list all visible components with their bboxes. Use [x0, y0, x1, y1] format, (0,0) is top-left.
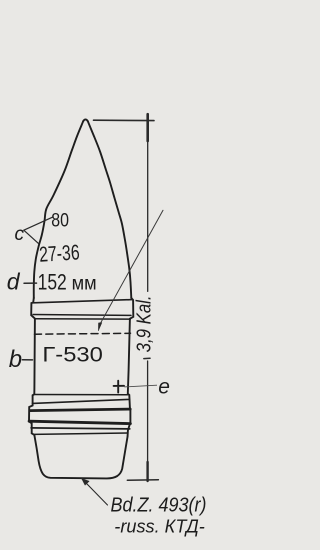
- dimension bottom tick line: [127, 479, 158, 481]
- svg-text:27-36: 27-36: [38, 240, 80, 266]
- diagonal leader arrowhead: [98, 323, 102, 331]
- small dash above lower segment: [144, 357, 150, 359]
- plus mark: [114, 381, 124, 393]
- fork line c lower prong: [24, 230, 39, 244]
- body left edge with bourrelet and driving-band steps: [29, 298, 35, 435]
- base fuze leader line: [82, 479, 108, 505]
- driving band line 5: [31, 428, 130, 429]
- svg-text:80: 80: [51, 210, 69, 232]
- svg-text:-russ. КТД-: -russ. КТД-: [114, 515, 205, 536]
- driving band line 1: [34, 394, 127, 396]
- svg-text:c: c: [15, 224, 25, 245]
- svg-text:d: d: [7, 269, 21, 295]
- projectile ogive left edge: [34, 121, 83, 298]
- bourrelet lower line b: [35, 318, 130, 320]
- fork line c upper prong: [24, 217, 53, 230]
- svg-text:b: b: [9, 346, 22, 373]
- svg-text:e: e: [158, 376, 170, 399]
- svg-text:мм: мм: [72, 272, 97, 294]
- dimension bottom dark stub: [146, 462, 148, 481]
- dimension vertical line lower segment: [147, 361, 149, 481]
- svg-text:152: 152: [38, 269, 67, 294]
- driving band line 2: [33, 399, 130, 403]
- projectile nose apex: [83, 119, 88, 121]
- dimension vertical line upper dark stub: [146, 114, 149, 141]
- body right edge with bourrelet and driving-band steps: [128, 298, 134, 436]
- base fuze leader arrowhead: [81, 478, 89, 485]
- d leader dash: [24, 282, 37, 284]
- long diagonal leader to filler joint: [100, 210, 164, 325]
- driving band line 3 (thick): [30, 409, 130, 411]
- svg-text:Bd.Z. 493(r): Bd.Z. 493(r): [111, 495, 207, 517]
- projectile ogive right edge: [88, 121, 132, 298]
- bourrelet lower line a: [33, 314, 131, 317]
- driving band line 4 (thick): [29, 421, 130, 423]
- svg-text:3,9 Kal.: 3,9 Kal.: [134, 295, 156, 352]
- b leader dash: [22, 359, 32, 361]
- svg-text:Г-530: Г-530: [42, 343, 103, 367]
- dimension vertical line upper segment: [147, 114, 149, 292]
- dashed filler boundary line: [35, 332, 131, 335]
- leader from plus to e: [124, 385, 157, 387]
- dimension top horizontal line from tip: [94, 119, 155, 121]
- bourrelet top line: [34, 300, 133, 303]
- driving band line 6: [34, 433, 128, 434]
- base cup outline: [34, 435, 127, 478]
